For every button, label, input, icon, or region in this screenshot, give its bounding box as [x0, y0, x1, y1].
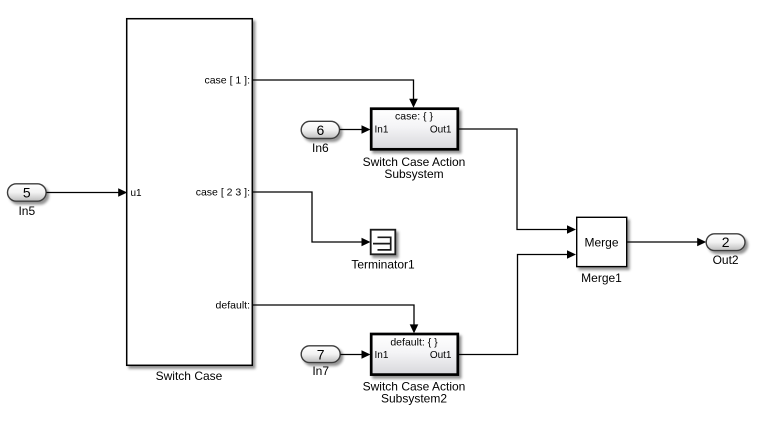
- svg-text:7: 7: [317, 347, 325, 363]
- svg-text:5: 5: [23, 185, 31, 201]
- svg-text:Terminator1: Terminator1: [351, 258, 415, 272]
- svg-text:In5: In5: [18, 204, 35, 218]
- svg-text:6: 6: [317, 122, 325, 138]
- svg-text:Out1: Out1: [430, 125, 452, 136]
- svg-text:default: { }: default: { }: [390, 337, 438, 349]
- svg-text:Subsystem: Subsystem: [384, 167, 443, 181]
- svg-text:u1: u1: [131, 188, 143, 199]
- svg-text:case [ 2 3 ]:: case [ 2 3 ]:: [196, 187, 250, 199]
- svg-text:Switch Case: Switch Case: [156, 369, 223, 383]
- svg-text:Merge: Merge: [584, 236, 618, 250]
- svg-text:In6: In6: [312, 141, 329, 155]
- svg-text:default:: default:: [216, 300, 250, 312]
- svg-text:In1: In1: [375, 350, 389, 361]
- svg-text:case [ 1 ]:: case [ 1 ]:: [204, 75, 250, 87]
- svg-text:In7: In7: [312, 364, 329, 378]
- svg-text:Merge1: Merge1: [581, 271, 622, 285]
- svg-text:Out2: Out2: [713, 253, 739, 267]
- svg-text:Subsystem2: Subsystem2: [381, 392, 447, 406]
- svg-text:In1: In1: [375, 125, 389, 136]
- svg-text:Out1: Out1: [430, 350, 452, 361]
- svg-text:2: 2: [722, 234, 730, 250]
- svg-text:case: { }: case: { }: [395, 111, 433, 123]
